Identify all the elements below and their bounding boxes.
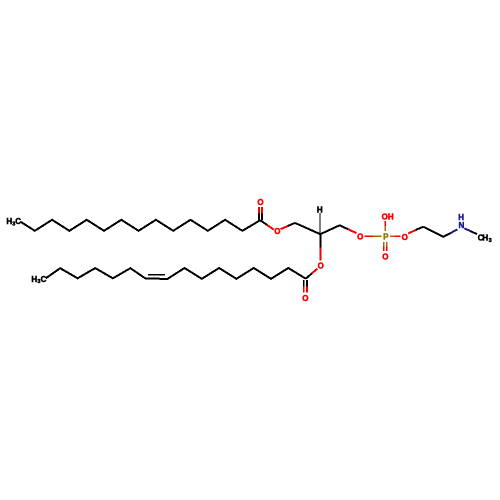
svg-text:C: C bbox=[41, 275, 47, 284]
svg-text:N: N bbox=[459, 221, 465, 230]
svg-text:H: H bbox=[458, 213, 464, 222]
svg-text:3: 3 bbox=[489, 238, 492, 244]
svg-text:O: O bbox=[302, 294, 308, 303]
svg-text:P: P bbox=[383, 232, 389, 241]
svg-text:H: H bbox=[317, 205, 323, 214]
svg-text:H: H bbox=[482, 233, 488, 242]
svg-text:O: O bbox=[402, 233, 408, 242]
svg-text:O: O bbox=[382, 252, 388, 261]
svg-text:O: O bbox=[274, 227, 280, 236]
svg-text:O: O bbox=[357, 232, 363, 241]
svg-text:O: O bbox=[318, 261, 324, 270]
svg-text:C: C bbox=[15, 217, 21, 226]
svg-text:O: O bbox=[257, 198, 263, 207]
svg-text:OH: OH bbox=[382, 212, 394, 221]
